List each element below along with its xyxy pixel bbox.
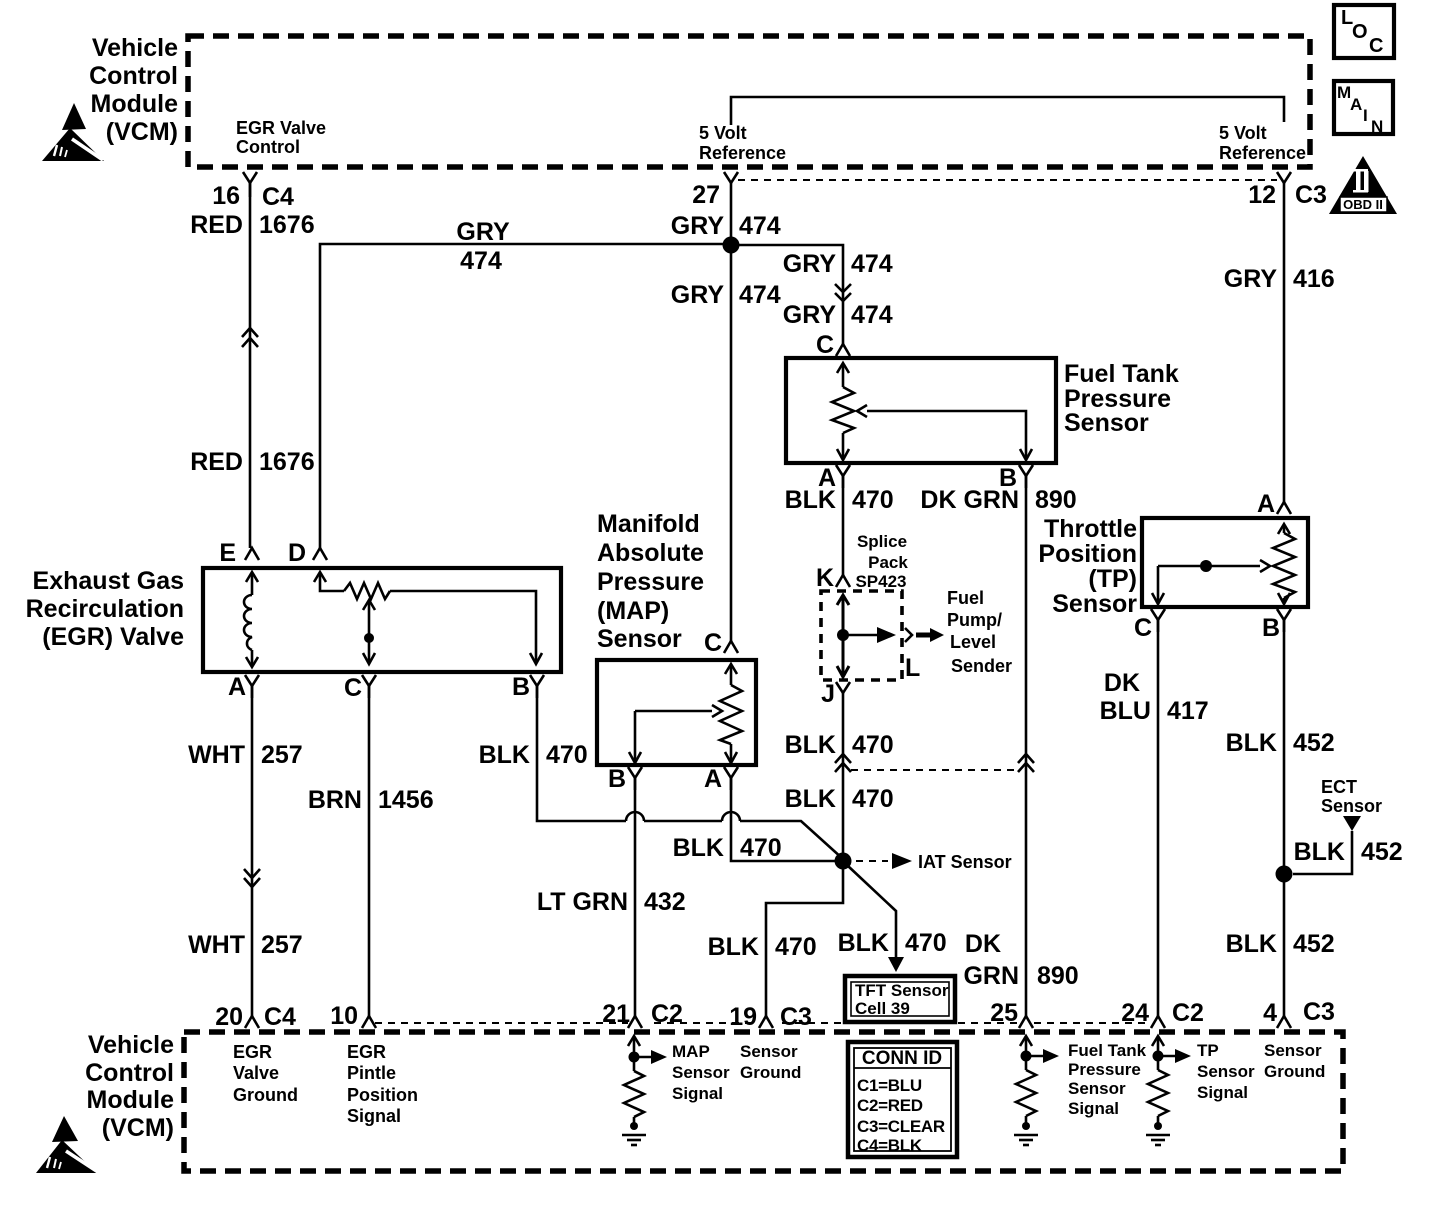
svg-text:BLK: BLK: [1294, 838, 1345, 866]
label BRN 1456: [308, 786, 434, 814]
svg-text:C2=RED: C2=RED: [857, 1096, 923, 1115]
label BLK 452 (upper): [1226, 729, 1335, 757]
svg-text:WHT: WHT: [188, 931, 245, 959]
crossing chevrons on BLK wire: [835, 754, 851, 772]
splice pack pin K connector: [816, 564, 850, 592]
svg-text:470: 470: [852, 731, 894, 759]
svg-text:BLK: BLK: [1226, 930, 1277, 958]
svg-text:Sensor: Sensor: [740, 1042, 798, 1061]
svg-text:Signal: Signal: [672, 1084, 723, 1103]
svg-text:C4: C4: [262, 183, 294, 211]
svg-text:BLK: BLK: [1226, 729, 1277, 757]
wire GRY 416 pin 12 to TP pin A: [1283, 183, 1286, 502]
wire BRN 1456 pin C to pin 10: [368, 686, 371, 1016]
svg-text:DK: DK: [965, 930, 1001, 958]
pin 21 internal load resistor to ground: [622, 1036, 667, 1145]
svg-text:21: 21: [602, 1000, 630, 1028]
svg-text:12: 12: [1248, 181, 1276, 209]
label DK BLU 417: [1100, 669, 1209, 725]
svg-text:A: A: [1350, 95, 1362, 114]
label BLK 452 (lower): [1226, 930, 1335, 958]
svg-text:Sensor: Sensor: [1264, 1041, 1322, 1060]
label Fuel Pump / Level Sender: [947, 588, 1012, 676]
svg-text:(EGR) Valve: (EGR) Valve: [42, 623, 184, 651]
svg-text:16: 16: [212, 182, 240, 210]
svg-text:1676: 1676: [259, 448, 315, 476]
Fuel Tank Pressure Sensor box: [786, 358, 1056, 463]
svg-text:GRY: GRY: [783, 301, 837, 329]
svg-text:27: 27: [692, 181, 720, 209]
wire BLK 452 branch to ECT sensor: [1293, 831, 1352, 874]
label Vehicle Control Module (VCM) bottom-left: [85, 1031, 174, 1142]
svg-text:O: O: [1352, 21, 1368, 43]
svg-text:A: A: [228, 673, 246, 701]
junction dot pin27 wire: [723, 237, 740, 254]
svg-text:BLK: BLK: [479, 741, 530, 769]
svg-text:C4: C4: [264, 1003, 296, 1031]
splice pack pin J connector: [821, 680, 850, 708]
svg-text:470: 470: [546, 741, 588, 769]
wire BLK 470 junction to TFT sensor: [848, 866, 904, 972]
wire GRY 474 from pin 27 down to MAP pin C: [730, 183, 733, 641]
Fuel pin B connector: [999, 464, 1033, 492]
svg-text:BLU: BLU: [1100, 697, 1151, 725]
svg-text:470: 470: [775, 933, 817, 961]
MAIN page reference box: [1334, 81, 1393, 136]
svg-text:D: D: [288, 539, 306, 567]
svg-text:Ground: Ground: [740, 1063, 801, 1082]
label Manifold Absolute Pressure (MAP) Sensor: [597, 510, 704, 653]
label LT GRN 432: [537, 888, 686, 916]
ESD symbol top-left: [42, 103, 104, 161]
svg-text:10: 10: [330, 1002, 358, 1030]
label RED 1676 (upper): [190, 211, 314, 239]
svg-text:Sender: Sender: [951, 656, 1012, 676]
svg-text:Sensor: Sensor: [672, 1063, 730, 1082]
svg-text:C1=BLU: C1=BLU: [857, 1076, 922, 1095]
svg-text:Position: Position: [1038, 540, 1137, 568]
svg-text:(VCM): (VCM): [106, 118, 178, 146]
svg-text:GRY: GRY: [671, 212, 725, 240]
svg-text:Signal: Signal: [1068, 1099, 1119, 1118]
svg-text:C: C: [704, 629, 722, 657]
pin 10 connector: [330, 1002, 376, 1030]
svg-text:A: A: [704, 765, 722, 793]
svg-text:1456: 1456: [378, 786, 434, 814]
svg-text:Signal: Signal: [347, 1106, 401, 1126]
label WHT 257 (lower): [188, 931, 303, 959]
MAP pin B connector: [608, 765, 642, 793]
splice pack SP423 dashed box: [821, 591, 902, 680]
svg-text:Sensor: Sensor: [1052, 590, 1137, 618]
svg-text:Module: Module: [91, 90, 179, 118]
svg-text:MAP: MAP: [672, 1042, 710, 1061]
svg-text:OBD II: OBD II: [1343, 197, 1383, 212]
EGR pin B connector: [512, 673, 544, 701]
TP potentiometer A-B: [1273, 524, 1295, 604]
junction dot BLK 452: [1276, 866, 1293, 883]
VCM top dashed box: [188, 36, 1310, 167]
svg-text:(MAP): (MAP): [597, 597, 669, 625]
VCM bottom dashed box: [184, 1032, 1343, 1171]
svg-text:20: 20: [215, 1003, 243, 1031]
svg-text:Splice: Splice: [857, 532, 907, 551]
svg-text:417: 417: [1167, 697, 1209, 725]
svg-text:Fuel: Fuel: [947, 588, 984, 608]
wire GRY 474 branch to Fuel Tank Pressure Sensor: [731, 245, 843, 344]
svg-text:GRY: GRY: [456, 218, 510, 246]
IAT sensor dashed arrow: [856, 852, 1012, 872]
svg-text:Sensor: Sensor: [1064, 409, 1149, 437]
label Exhaust Gas Recirculation (EGR) Valve: [26, 567, 184, 651]
label Fuel Tank Pressure Sensor: [1064, 360, 1179, 437]
svg-text:N: N: [1371, 117, 1383, 136]
pin 25 internal load resistor to ground: [1014, 1036, 1059, 1145]
pin 4 C3 connector: [1263, 998, 1335, 1028]
wire BLK 470 MAP pin A to junction: [731, 778, 835, 861]
svg-text:Sensor: Sensor: [1197, 1062, 1255, 1081]
text: 5 Volt Reference (right): [1219, 123, 1306, 163]
svg-text:Sensor: Sensor: [597, 625, 682, 653]
text: 5 Volt Reference (left): [699, 123, 786, 163]
pin 24 C2 connector: [1121, 999, 1204, 1028]
svg-text:SP423: SP423: [855, 572, 906, 591]
OBD II triangle symbol: [1329, 156, 1397, 214]
svg-text:DK: DK: [1104, 669, 1140, 697]
svg-text:C: C: [816, 331, 834, 359]
svg-text:474: 474: [739, 212, 781, 240]
svg-text:BLK: BLK: [785, 731, 836, 759]
svg-text:474: 474: [851, 250, 893, 278]
svg-text:TFT Sensor: TFT Sensor: [855, 981, 949, 1000]
crossing chevrons on GRY branch: [835, 284, 851, 301]
label BLK 470 (fuel pin A): [785, 486, 894, 514]
TP pin B connector: [1262, 609, 1291, 642]
label GRY 474 (pin 27 below junction): [671, 281, 781, 309]
label BLK 470 (pin 19 wire): [708, 933, 817, 961]
svg-text:890: 890: [1037, 962, 1079, 990]
svg-text:Control: Control: [89, 62, 178, 90]
label Splice Pack SP423: [855, 532, 908, 591]
svg-text:Ground: Ground: [1264, 1062, 1325, 1081]
svg-text:470: 470: [905, 929, 947, 957]
label GRY 474 (branch lower): [783, 301, 893, 329]
svg-text:Pintle: Pintle: [347, 1063, 396, 1083]
svg-text:Valve: Valve: [233, 1063, 279, 1083]
svg-text:452: 452: [1293, 729, 1335, 757]
svg-text:Fuel Tank: Fuel Tank: [1068, 1041, 1147, 1060]
svg-text:19: 19: [729, 1003, 757, 1031]
svg-text:GRN: GRN: [963, 962, 1019, 990]
EGR wiper to pin C: [363, 600, 375, 664]
pin 16 C4 connector: [212, 172, 294, 211]
TP pin A connector: [1257, 490, 1291, 518]
svg-text:Level: Level: [950, 632, 996, 652]
svg-text:B: B: [1262, 614, 1280, 642]
svg-text:WHT: WHT: [188, 741, 245, 769]
EGR pin C connector: [344, 674, 376, 702]
crossing chevrons on DK GRN wire: [1018, 754, 1034, 772]
Fuel wiper to pin B: [857, 405, 1032, 460]
svg-text:Reference: Reference: [1219, 143, 1306, 163]
svg-text:5 Volt: 5 Volt: [699, 123, 747, 143]
TP wiper to pin C: [1152, 560, 1270, 604]
svg-text:470: 470: [852, 785, 894, 813]
junction dot BLK 470: [835, 853, 852, 870]
splice pack internal wire: [837, 595, 896, 677]
svg-text:432: 432: [644, 888, 686, 916]
svg-text:Recirculation: Recirculation: [26, 595, 184, 623]
text EGR Pintle Position Signal: [347, 1042, 418, 1126]
svg-text:LT GRN: LT GRN: [537, 888, 628, 916]
TP sensor box: [1142, 518, 1308, 607]
svg-text:Manifold: Manifold: [597, 510, 700, 538]
svg-text:474: 474: [851, 301, 893, 329]
svg-text:Position: Position: [347, 1085, 418, 1105]
connector dotted line pin19 to TFT box: [782, 1022, 843, 1024]
label ECT Sensor: [1321, 777, 1382, 816]
wire LT GRN 432 MAP pin B to pin 21: [634, 778, 637, 1016]
svg-text:Fuel Tank: Fuel Tank: [1064, 360, 1179, 388]
svg-text:Pump/: Pump/: [947, 610, 1002, 630]
pin 21 C2 connector: [602, 1000, 683, 1028]
splice pack output half-connector and arrow to fuel pump: [905, 628, 944, 642]
wire BLK 470 junction to pin 19: [766, 868, 843, 1016]
svg-text:IAT Sensor: IAT Sensor: [918, 852, 1012, 872]
svg-text:C3: C3: [780, 1003, 812, 1031]
svg-text:257: 257: [261, 931, 303, 959]
svg-text:RED: RED: [190, 211, 243, 239]
crossing chevrons on RED wire: [242, 328, 258, 347]
svg-text:B: B: [512, 673, 530, 701]
svg-text:EGR: EGR: [347, 1042, 386, 1062]
svg-text:CONN ID: CONN ID: [862, 1048, 942, 1069]
svg-text:Sensor: Sensor: [1068, 1079, 1126, 1098]
svg-text:4: 4: [1263, 999, 1277, 1027]
label GRY 416: [1224, 265, 1335, 293]
wire BLK 470 fuel pin A to splice pack: [842, 476, 845, 575]
label: Vehicle Control Module (VCM) top-left: [89, 34, 178, 146]
svg-text:Control: Control: [85, 1059, 174, 1087]
svg-text:474: 474: [739, 281, 781, 309]
EGR pin D connector: [288, 539, 327, 567]
label BLK 470 (above chevron): [785, 731, 894, 759]
svg-text:Pressure: Pressure: [597, 568, 704, 596]
Fuel potentiometer C-A: [832, 363, 854, 460]
svg-text:Ground: Ground: [233, 1085, 298, 1105]
svg-text:Pressure: Pressure: [1068, 1060, 1141, 1079]
MAP potentiometer C-A: [720, 664, 742, 763]
wire WHT 257 pin A to pin 20: [251, 686, 254, 1016]
svg-text:24: 24: [1121, 999, 1149, 1027]
connector dotted line pin10 to pin21: [375, 1022, 628, 1024]
text: EGR Valve Control: [236, 118, 326, 157]
svg-text:C2: C2: [651, 1000, 683, 1028]
svg-text:B: B: [608, 765, 626, 793]
svg-text:257: 257: [261, 741, 303, 769]
svg-text:C4=BLK: C4=BLK: [857, 1136, 923, 1155]
wire BLK 452 TP pin B to pin 4: [1283, 620, 1286, 1016]
wire GRY 474 horizontal to EGR pin D: [320, 244, 729, 548]
svg-text:BLK: BLK: [785, 785, 836, 813]
label BLK 470 (MAP pin A wire): [673, 834, 782, 862]
EGR pin A connector: [228, 673, 259, 701]
svg-text:Vehicle: Vehicle: [88, 1031, 174, 1059]
wire DK BLU 417 TP pin C to pin 24: [1157, 620, 1160, 1016]
LOC page reference box: [1334, 5, 1394, 58]
EGR potentiometer D-B: [314, 572, 542, 664]
wire DK GRN 890 fuel pin B to pin 25: [1025, 476, 1028, 1016]
svg-text:J: J: [821, 680, 835, 708]
MAP pin C connector: [704, 629, 738, 657]
label BLK 470 (EGR pin B wire): [479, 741, 588, 769]
svg-text:Reference: Reference: [699, 143, 786, 163]
label BLK 470 (TFT wire): [838, 929, 947, 957]
wire RED 1676: [249, 183, 252, 548]
text Fuel Tank Pressure Sensor Signal: [1068, 1041, 1147, 1118]
svg-text:L: L: [905, 654, 920, 682]
svg-text:RED: RED: [190, 448, 243, 476]
svg-text:ECT: ECT: [1321, 777, 1357, 797]
svg-text:EGR: EGR: [233, 1042, 272, 1062]
svg-text:C: C: [1134, 614, 1152, 642]
ESD symbol bottom-left: [36, 1116, 98, 1173]
svg-text:452: 452: [1361, 838, 1403, 866]
EGR solenoid coil E-A: [244, 572, 258, 667]
label GRY 474 (pin 27 above junction): [671, 212, 781, 240]
label DK GRN 890 (lower): [963, 930, 1078, 990]
svg-text:Vehicle: Vehicle: [92, 34, 178, 62]
svg-text:BRN: BRN: [308, 786, 362, 814]
Fuel pin C connector: [816, 331, 850, 359]
label DK GRN 890 (fuel pin B): [920, 486, 1076, 514]
svg-text:Cell 39: Cell 39: [855, 999, 910, 1018]
wire BLK 470 splice J to junction: [842, 693, 845, 861]
svg-text:(TP): (TP): [1088, 565, 1137, 593]
svg-text:C: C: [344, 674, 362, 702]
svg-text:25: 25: [990, 999, 1018, 1027]
CONN ID box: [848, 1042, 957, 1157]
svg-text:470: 470: [852, 486, 894, 514]
svg-text:Sensor: Sensor: [1321, 796, 1382, 816]
pin 24 internal load resistor to ground: [1146, 1036, 1191, 1145]
svg-text:Control: Control: [236, 137, 300, 157]
pin 20 C4 connector: [215, 1003, 296, 1031]
TP pin C connector: [1134, 609, 1165, 642]
svg-text:5 Volt: 5 Volt: [1219, 123, 1267, 143]
svg-text:I: I: [1363, 106, 1368, 125]
MAP sensor box: [597, 660, 756, 765]
Fuel pin A connector: [818, 464, 850, 492]
connector dashed line between BLK and DK GRN chevrons: [851, 769, 1018, 771]
text Sensor Ground (pin 4): [1264, 1041, 1325, 1081]
label Throttle Position (TP) Sensor: [1038, 515, 1137, 618]
text TP Sensor Signal: [1197, 1041, 1255, 1102]
text EGR Valve Ground: [233, 1042, 298, 1105]
svg-text:(VCM): (VCM): [102, 1114, 174, 1142]
svg-text:DK GRN: DK GRN: [920, 486, 1019, 514]
svg-text:416: 416: [1293, 265, 1335, 293]
svg-text:Module: Module: [87, 1086, 175, 1114]
svg-text:890: 890: [1035, 486, 1077, 514]
connector dotted line pin25 to pin24: [1034, 1022, 1150, 1024]
wire BLK 470 from EGR pin B: [537, 686, 843, 859]
svg-text:Exhaust Gas: Exhaust Gas: [33, 567, 184, 595]
svg-text:C2: C2: [1172, 999, 1204, 1027]
pin 27 connector: [692, 172, 738, 209]
svg-text:Throttle: Throttle: [1044, 515, 1137, 543]
wire: 5 Volt Reference bus inside VCM: [731, 97, 1284, 125]
connector dotted line pin21 to pin19: [654, 1022, 757, 1024]
ECT sensor arrow: [1343, 816, 1361, 831]
svg-text:452: 452: [1293, 930, 1335, 958]
svg-text:1676: 1676: [259, 211, 315, 239]
pin 25 connector: [990, 999, 1033, 1028]
svg-text:GRY: GRY: [783, 250, 837, 278]
label BLK 452 (ECT branch): [1294, 838, 1403, 866]
svg-text:BLK: BLK: [838, 929, 889, 957]
svg-text:470: 470: [740, 834, 782, 862]
label WHT 257 (upper): [188, 741, 303, 769]
crossing chevrons on WHT wire: [244, 869, 260, 887]
svg-text:K: K: [816, 564, 834, 592]
svg-text:GRY: GRY: [671, 281, 725, 309]
svg-text:C3=CLEAR: C3=CLEAR: [857, 1117, 945, 1136]
svg-text:Absolute: Absolute: [597, 539, 704, 567]
label GRY 474 (branch upper): [783, 250, 893, 278]
text Sensor Ground (pin 19): [740, 1042, 801, 1082]
svg-text:BLK: BLK: [673, 834, 724, 862]
EGR pin E connector: [219, 539, 259, 567]
svg-text:C: C: [1369, 35, 1383, 57]
svg-text:EGR Valve: EGR Valve: [236, 118, 326, 138]
connector dotted line pin27 to pin12: [738, 179, 1277, 181]
pin 19 C3 connector: [729, 1003, 812, 1031]
connector dotted line TFT box to pin25: [958, 1022, 1018, 1024]
svg-text:C3: C3: [1295, 181, 1327, 209]
MAP wiper to pin B: [629, 705, 722, 763]
TFT Sensor Cell 39 box: [845, 976, 955, 1022]
svg-text:Pack: Pack: [868, 553, 908, 572]
svg-text:C3: C3: [1303, 998, 1335, 1026]
MAP pin A connector: [704, 765, 738, 793]
EGR valve box: [203, 568, 561, 672]
svg-text:GRY: GRY: [1224, 265, 1278, 293]
text MAP Sensor Signal: [672, 1042, 730, 1103]
pin 12 C3 connector: [1248, 172, 1327, 209]
label RED 1676 (lower): [190, 448, 314, 476]
svg-text:BLK: BLK: [785, 486, 836, 514]
svg-text:E: E: [219, 539, 236, 567]
label BLK 470 (below chevron): [785, 785, 894, 813]
svg-text:BLK: BLK: [708, 933, 759, 961]
svg-text:Signal: Signal: [1197, 1083, 1248, 1102]
label GRY 474 (horizontal wire): [456, 218, 510, 275]
svg-text:A: A: [1257, 490, 1275, 518]
svg-text:TP: TP: [1197, 1041, 1219, 1060]
svg-text:474: 474: [460, 247, 502, 275]
